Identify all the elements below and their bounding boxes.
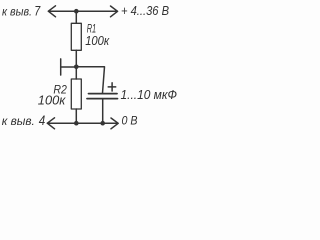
svg-text:0 В: 0 В: [122, 114, 138, 128]
arrow to pin 7 (left): [48, 6, 55, 17]
capacitor plus sign: [108, 83, 116, 91]
arrow to 0V (right): [111, 118, 118, 129]
wire from top node down to R1: [75, 11, 77, 23]
resistor R1 body: [71, 23, 81, 50]
arrow to +4...36V (right): [111, 6, 118, 17]
svg-text:4: 4: [39, 112, 46, 128]
svg-text:к выв.: к выв.: [2, 6, 32, 18]
svg-text:7: 7: [34, 2, 41, 18]
node middle junction: [74, 65, 79, 70]
svg-text:1...10 мкФ: 1...10 мкФ: [121, 87, 178, 102]
arrow to pin 4 (left): [47, 118, 54, 129]
svg-text:100к: 100к: [38, 92, 66, 107]
node bottom junction capacitor: [100, 121, 105, 126]
wire top horizontal: [49, 10, 118, 12]
node bottom junction R2: [74, 121, 79, 126]
svg-text:+ 4...36 В: + 4...36 В: [121, 3, 169, 18]
wire R1 bottom to middle node: [75, 50, 77, 67]
svg-text:к выв.: к выв.: [2, 116, 35, 128]
svg-text:100к: 100к: [85, 33, 110, 48]
wire R2 bottom to bottom node: [75, 109, 77, 123]
capacitor C1 top plate: [89, 93, 118, 95]
capacitor C1 bottom plate: [87, 98, 118, 100]
node top junction: [74, 9, 79, 14]
resistor R2 body: [71, 79, 81, 109]
wire middle node to left tap terminal: [61, 66, 77, 68]
wire middle node down to R2: [75, 67, 77, 79]
wire middle node to capacitor branch: [76, 67, 104, 93]
wire capacitor bottom to bottom wire: [102, 99, 104, 124]
tap terminal bar: [60, 59, 62, 75]
wire bottom horizontal: [48, 122, 118, 124]
